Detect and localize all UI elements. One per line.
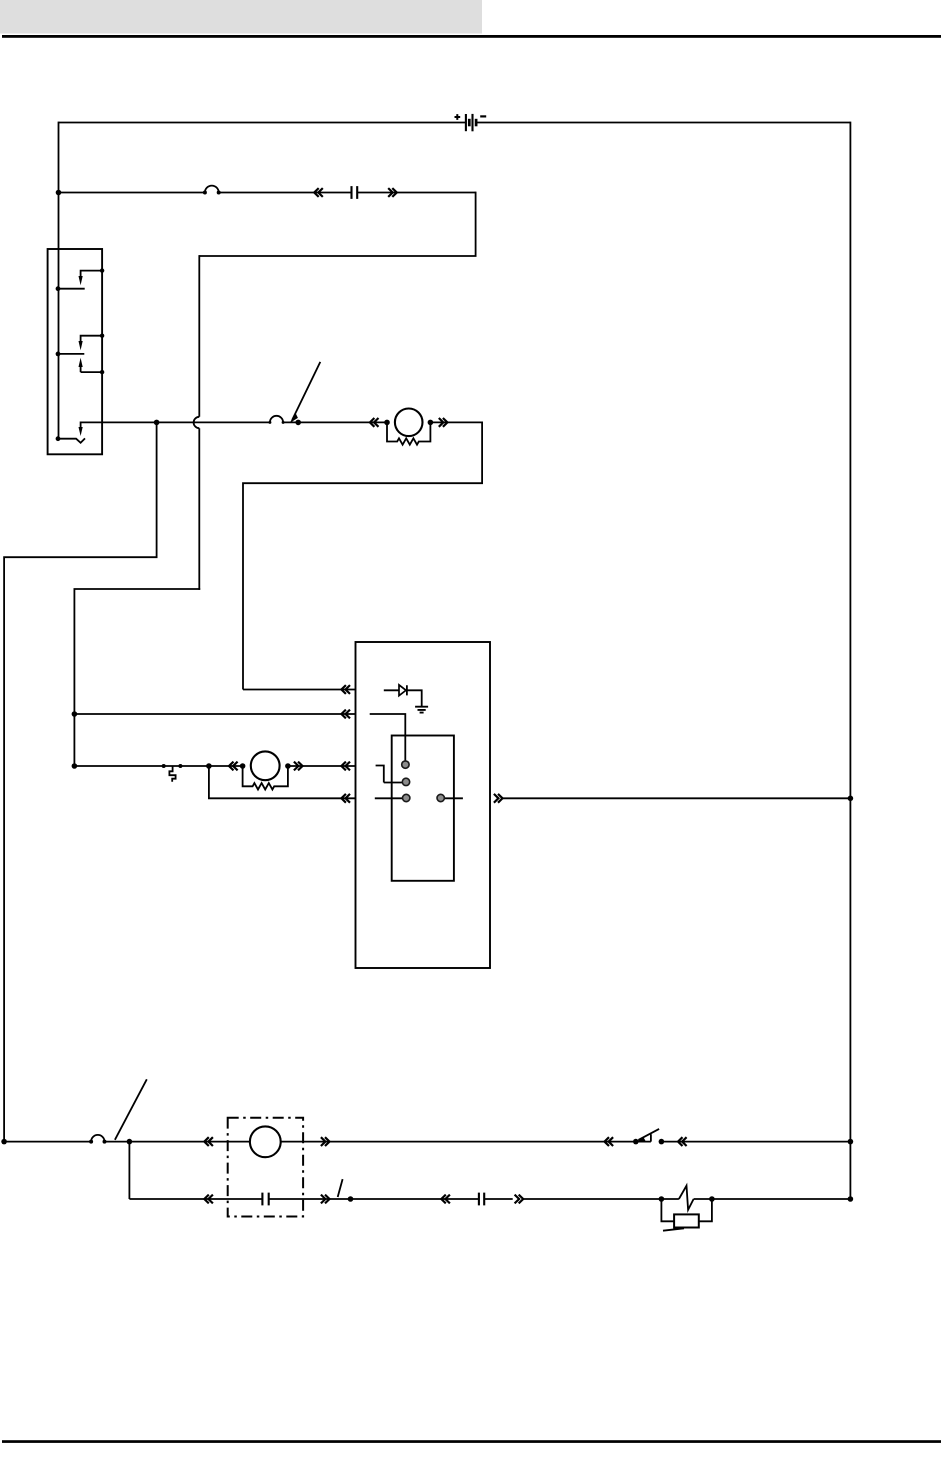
battery B1 [455,114,487,131]
connector C4 plug [294,762,303,771]
connector C1 socket [314,188,323,197]
connector C3 pin 1 [341,685,350,694]
switch S2 lever [290,362,321,425]
wire accessory feed to relay rows [74,588,200,766]
wire lamp row left [129,1198,262,1200]
grommet G1 [203,186,221,195]
connector C3 pin 3 [341,762,350,771]
connector C6 socket [204,1137,213,1146]
wire far-left bus [4,422,157,1142]
motor M1 [384,409,433,437]
switch S4 [633,1129,664,1144]
wire ignition row left [102,421,270,423]
connector C9 plug [515,1195,524,1204]
connector C1 plug [388,188,397,197]
wire lamp row to right bus [694,1198,851,1200]
node ignition row junction [154,420,160,426]
wire fuse row left [59,192,205,194]
wire ignition row middle [283,421,387,423]
ground strap [663,1228,684,1230]
lamp L1 connector terminals [262,1193,268,1206]
wire U1 output to right bus [503,797,851,799]
ground GND1 [415,707,428,713]
node motor row junction [72,763,78,769]
relay K1 contact feed [375,797,463,799]
wire coil feed inside U1 [370,713,406,761]
relay K1 armature [376,765,402,783]
wire motor row left [74,765,242,767]
wire fuse row right [357,192,475,194]
fuse F1 [162,764,183,782]
connector C2 plug [439,418,448,427]
connector C9 socket [441,1195,450,1204]
wire fuse row middle [219,192,352,194]
wire drop to accessory feed [199,192,475,256]
connector C7 plug [678,1137,687,1146]
terminal T2 [402,778,409,785]
circuit breaker CB1 [659,1186,715,1210]
wire lamp branch vertical [128,1141,130,1199]
node lamp branch [127,1139,133,1145]
switch S3 lever [115,1079,147,1140]
relay K1 [392,736,454,881]
connector C3 pin 4 [341,794,350,803]
wire relay row 4 feed [209,765,356,798]
connector C2 socket [370,418,379,427]
connector C1 terminals [352,186,358,199]
grommet G3 [89,1135,106,1144]
node right bus lower junction [848,1139,854,1145]
wire right bus [849,122,851,1199]
node fuse-row junction [56,190,62,196]
connector C9 terminals [479,1193,484,1206]
wire lamp row at connector C9 [441,1198,512,1200]
wire battery positive feed [59,122,466,124]
wire ignition row right [430,421,482,423]
wire bottom row middle [281,1141,636,1143]
connector C8 socket [204,1195,213,1204]
node output junction [848,796,854,802]
wire lamp row middle [269,1198,442,1200]
resistor R1 bypass [387,422,430,445]
wire to relay input 1 [243,422,482,690]
connector C6 plug [321,1137,330,1146]
ignition switch S1 [48,249,105,454]
node right bus end [848,1196,854,1202]
terminal T4 [437,794,444,801]
terminal T3 [403,794,410,801]
wire relay row 2 [74,713,355,715]
wire bottom row right [661,1141,850,1143]
wire hop over ignition row [194,417,200,428]
wire left bus [58,122,60,250]
gauge M3 [250,1126,281,1157]
resistor R3 bypass [661,1198,712,1227]
connector C3 pin 2 [341,710,350,719]
node far-left corner [1,1139,7,1145]
wire accessory feed vertical with hop [198,255,200,590]
connector C4 socket [229,762,238,771]
diode D1 [384,685,422,707]
wire bottom row to gauge [105,1141,250,1143]
connector C5 plug [494,794,503,803]
motor M2 [240,751,291,780]
node relay row 2 tap [72,711,78,717]
wire relay row 1 [243,689,356,691]
connector C8 plug [321,1195,330,1204]
switch S5 lever [338,1179,354,1202]
instrument cluster (dashed) [228,1118,303,1217]
wire battery negative to right bus [477,122,851,124]
resistor R2 bypass [243,765,288,790]
control module U1 [356,642,491,968]
terminal T1 [402,761,409,768]
wire motor row right [288,765,356,767]
grommet G2 [268,416,284,424]
connector C7 socket [605,1137,614,1146]
wire bottom row left [4,1141,91,1143]
wire lamp row right [523,1198,679,1200]
